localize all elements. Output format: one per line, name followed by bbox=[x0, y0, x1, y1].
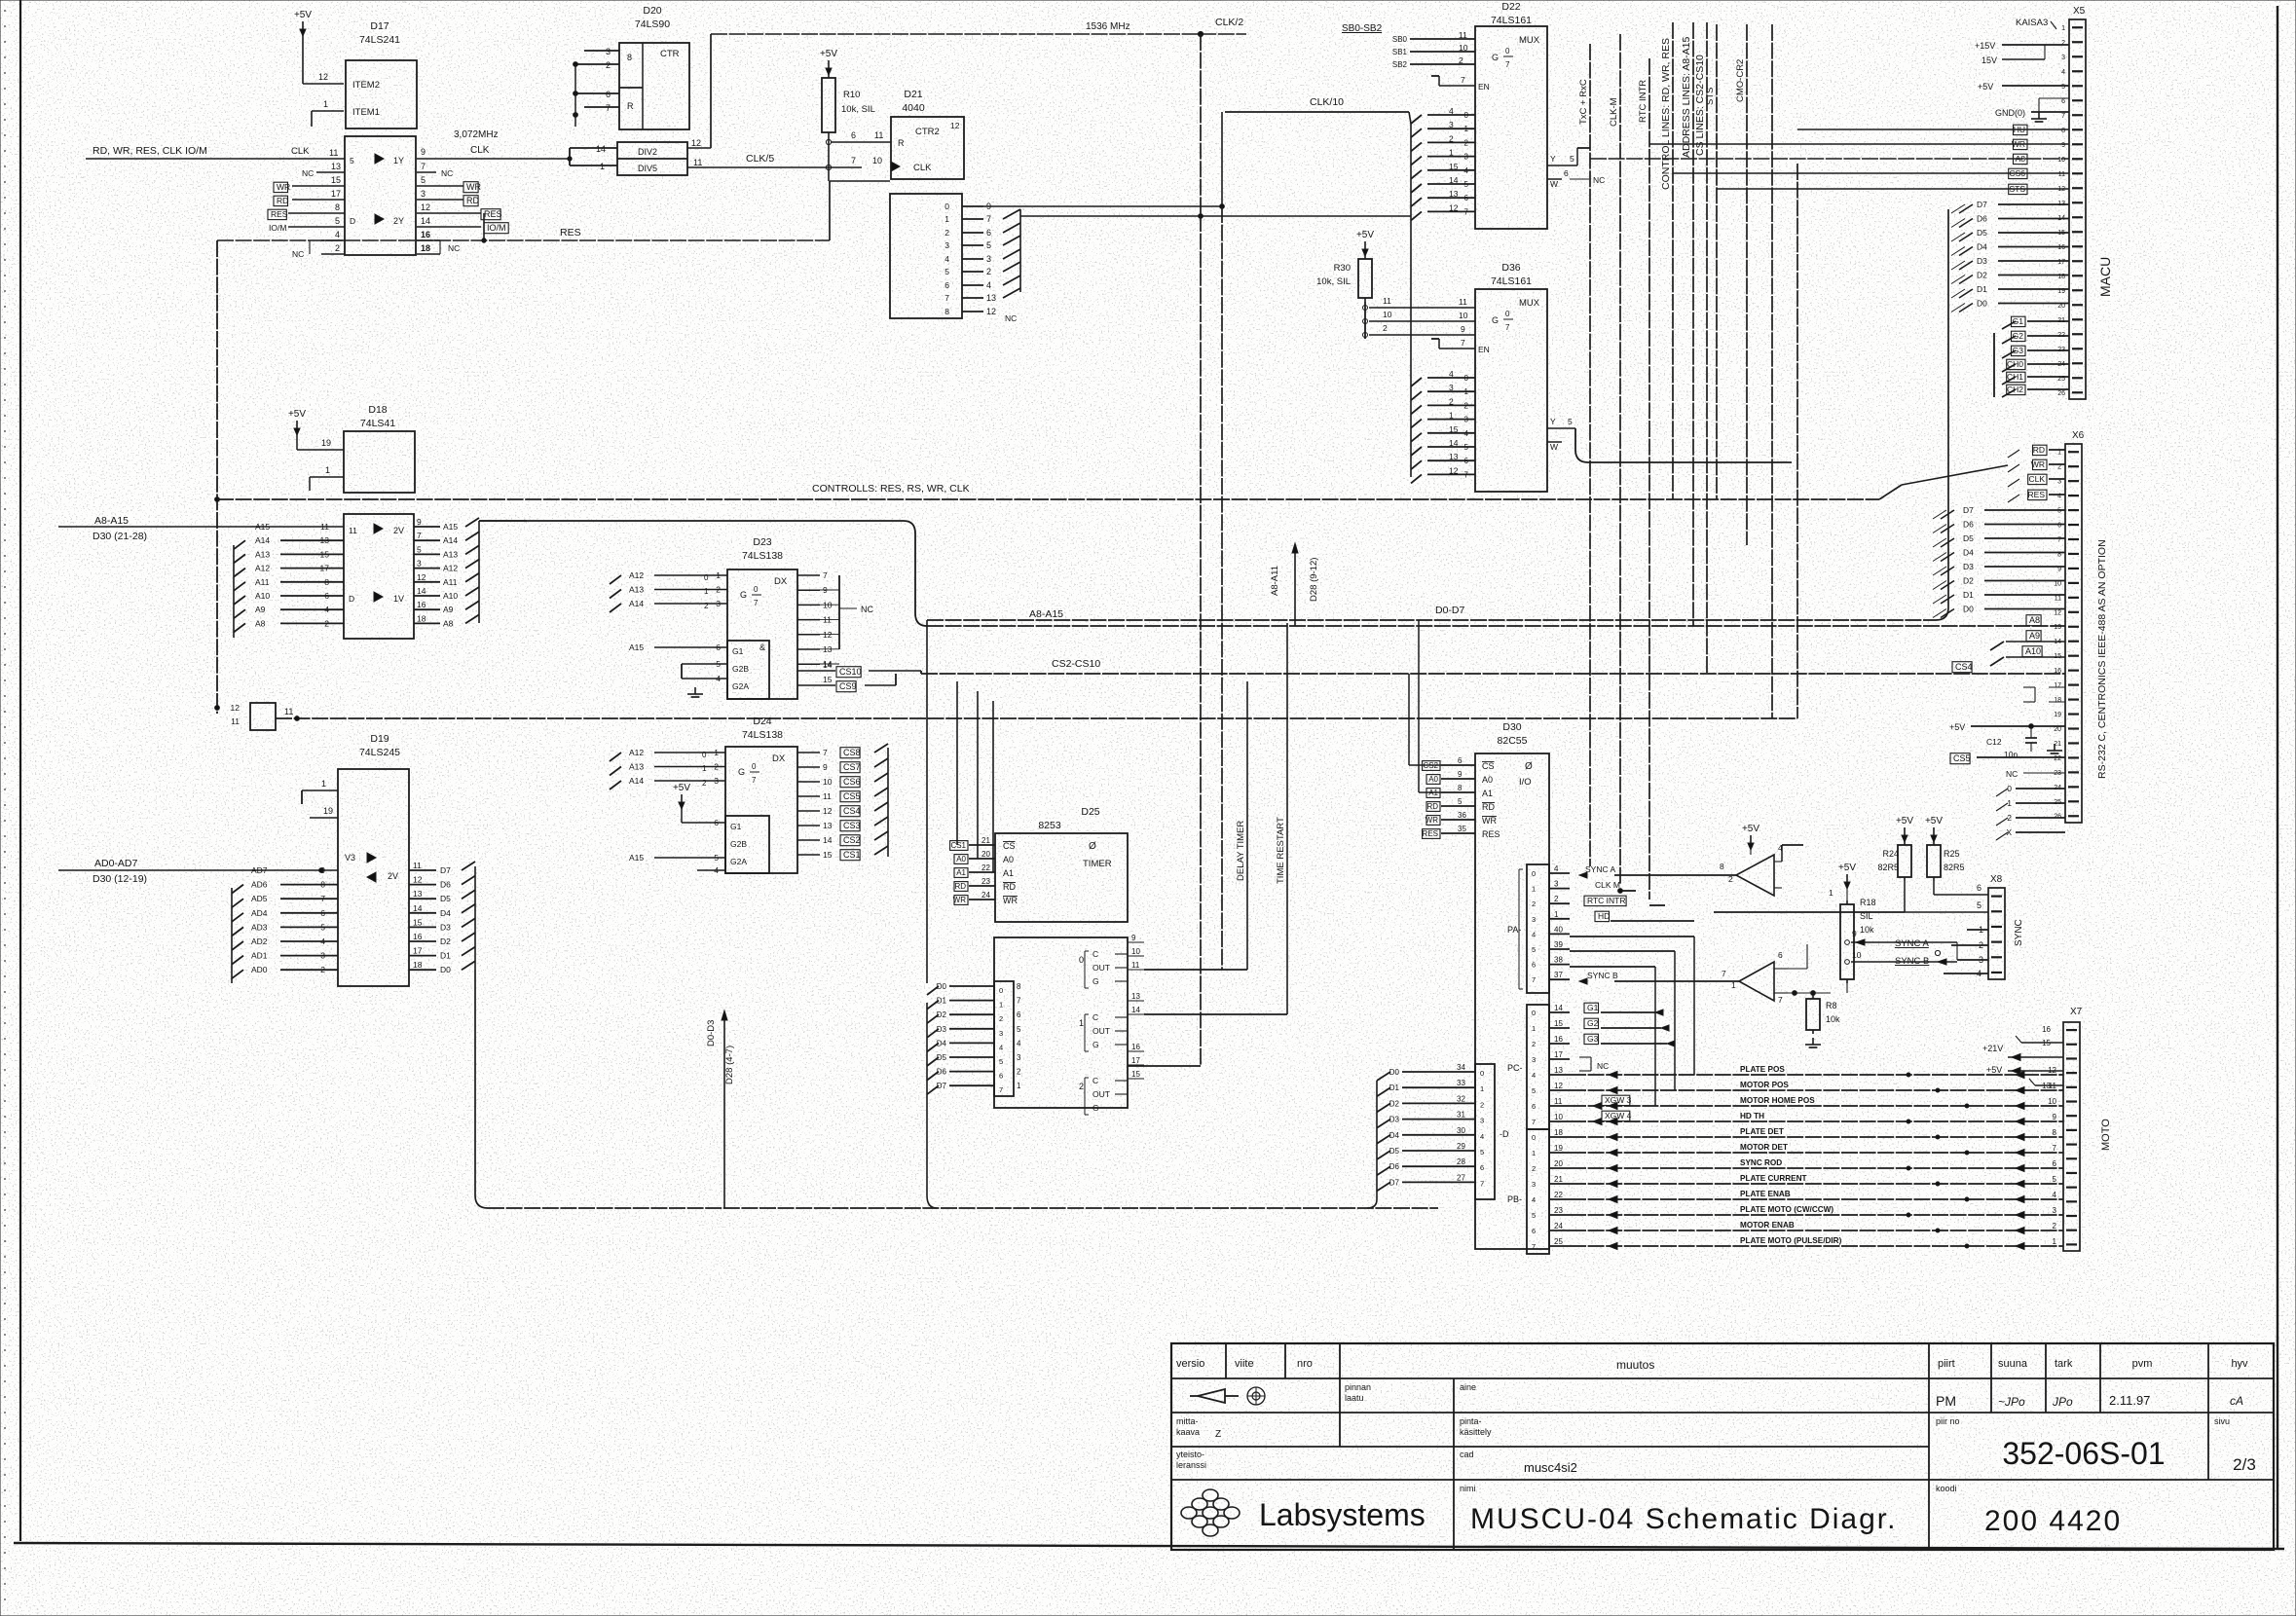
svg-text:14: 14 bbox=[1449, 175, 1459, 185]
svg-text:G: G bbox=[1092, 976, 1099, 986]
svg-text:NC: NC bbox=[292, 249, 304, 259]
svg-text:CLK: CLK bbox=[2028, 474, 2045, 484]
svg-text:7: 7 bbox=[417, 531, 422, 540]
svg-text:CS LINES: CS2-CS10: CS LINES: CS2-CS10 bbox=[1694, 55, 1706, 156]
svg-text:G2B: G2B bbox=[732, 664, 749, 674]
svg-text:19: 19 bbox=[321, 438, 331, 448]
svg-text:8: 8 bbox=[1017, 982, 1021, 991]
wire X6 NC bracket bbox=[2023, 686, 2035, 688]
net A8-A15 trunk right bbox=[479, 520, 527, 522]
net CS2-CS10 trunk bbox=[920, 671, 922, 674]
svg-text:D0: D0 bbox=[440, 965, 451, 974]
svg-text:AD3: AD3 bbox=[251, 922, 268, 932]
svg-text:8: 8 bbox=[2053, 1128, 2057, 1137]
svg-text:D6: D6 bbox=[1389, 1162, 1400, 1171]
svg-text:12: 12 bbox=[1449, 202, 1459, 212]
wire D23 outputs bbox=[797, 574, 820, 576]
svg-text:D1: D1 bbox=[1389, 1083, 1400, 1092]
svg-text:D2: D2 bbox=[440, 937, 451, 946]
net CONTROLLS RES RS WR CLK trunk bbox=[217, 498, 1879, 500]
svg-text:3: 3 bbox=[1464, 153, 1469, 162]
svg-text:20: 20 bbox=[981, 850, 990, 859]
svg-text:DX: DX bbox=[774, 576, 788, 587]
border frame right bbox=[2277, 6, 2278, 1549]
svg-text:CLK/10: CLK/10 bbox=[1310, 96, 1344, 108]
svg-text:TIMER: TIMER bbox=[1083, 859, 1112, 869]
net ADDRESS LINES label bbox=[1692, 22, 1694, 626]
svg-text:3: 3 bbox=[417, 559, 422, 569]
wire D23 CS10 CS9 outputs bbox=[797, 670, 835, 672]
svg-text:6: 6 bbox=[1464, 194, 1469, 202]
wire RES pin 8 bbox=[288, 212, 345, 214]
resistor R30 10k SIL bbox=[1364, 255, 1366, 259]
IC D24 enable sub-box bbox=[725, 816, 769, 873]
svg-text:3: 3 bbox=[999, 1029, 1003, 1038]
svg-text:0: 0 bbox=[752, 762, 757, 771]
svg-text:RD: RD bbox=[1426, 802, 1438, 811]
svg-text:12: 12 bbox=[421, 202, 430, 212]
svg-text:10k: 10k bbox=[1826, 1014, 1840, 1024]
svg-text:7: 7 bbox=[823, 570, 828, 580]
svg-text:2: 2 bbox=[1532, 1040, 1536, 1048]
svg-text:1: 1 bbox=[714, 748, 719, 757]
svg-text:17: 17 bbox=[2054, 682, 2061, 689]
svg-text:A8-A11: A8-A11 bbox=[1270, 566, 1280, 596]
svg-text:pinta-: pinta- bbox=[1460, 1416, 1482, 1426]
svg-text:+5V: +5V bbox=[294, 10, 312, 20]
svg-text:0: 0 bbox=[1480, 1069, 1484, 1078]
svg-text:SB0-SB2: SB0-SB2 bbox=[1342, 23, 1383, 34]
svg-text:KAISA3: KAISA3 bbox=[2016, 18, 2048, 28]
svg-text:R: R bbox=[627, 101, 634, 111]
wire D36 EN bbox=[1439, 348, 1475, 349]
svg-text:9: 9 bbox=[2053, 1113, 2057, 1121]
svg-text:5: 5 bbox=[2057, 508, 2061, 515]
svg-text:20: 20 bbox=[1554, 1159, 1563, 1168]
svg-text:A0: A0 bbox=[1428, 775, 1438, 784]
svg-text:OUT: OUT bbox=[1092, 1026, 1110, 1036]
svg-text:5: 5 bbox=[1977, 900, 1981, 910]
svg-text:A15: A15 bbox=[629, 853, 644, 863]
svg-text:D4: D4 bbox=[1977, 242, 1987, 252]
svg-text:CLK/5: CLK/5 bbox=[746, 153, 774, 165]
wire D30 CS2 riser bbox=[1408, 674, 1410, 765]
svg-text:yteisto-: yteisto- bbox=[1176, 1450, 1204, 1459]
wire RES routing down from D17 bbox=[483, 213, 485, 240]
svg-text:Y: Y bbox=[1550, 154, 1556, 164]
svg-text:23: 23 bbox=[1554, 1206, 1563, 1215]
svg-text:0: 0 bbox=[702, 751, 707, 759]
svg-text:9: 9 bbox=[417, 517, 422, 527]
svg-text:1: 1 bbox=[1731, 980, 1736, 990]
svg-text:A14: A14 bbox=[255, 535, 270, 545]
svg-text:CLK-M: CLK-M bbox=[1609, 97, 1619, 127]
svg-text:AD5: AD5 bbox=[251, 894, 268, 903]
svg-text:82C55: 82C55 bbox=[1498, 735, 1528, 747]
svg-text:36: 36 bbox=[1458, 811, 1466, 820]
op-amp U2 comparator B bbox=[1739, 962, 1774, 1001]
svg-text:+5V: +5V bbox=[1978, 82, 1993, 92]
svg-text:3,072MHz: 3,072MHz bbox=[454, 129, 499, 140]
IC D30 D box bbox=[1475, 1064, 1495, 1199]
svg-text:V3: V3 bbox=[345, 853, 355, 863]
resistor R24 82R5 bbox=[1904, 841, 1906, 845]
svg-text:A11: A11 bbox=[443, 577, 458, 587]
svg-text:A8: A8 bbox=[2016, 154, 2026, 164]
svg-text:0: 0 bbox=[2007, 784, 2012, 793]
wire D17 pins 16 18 NC bbox=[417, 239, 440, 241]
wire PC NC bracket bbox=[1579, 1056, 1591, 1058]
svg-text:8: 8 bbox=[2061, 128, 2065, 134]
svg-text:6: 6 bbox=[606, 90, 611, 99]
svg-text:AD7: AD7 bbox=[251, 865, 268, 875]
svg-text:IO/M: IO/M bbox=[487, 223, 506, 233]
svg-text:A14: A14 bbox=[629, 776, 644, 786]
svg-text:SYNC: SYNC bbox=[2014, 919, 2024, 946]
svg-text:14: 14 bbox=[823, 835, 833, 845]
svg-text:D6: D6 bbox=[1977, 214, 1987, 224]
svg-text:19: 19 bbox=[2054, 712, 2061, 718]
svg-text:11: 11 bbox=[874, 130, 883, 140]
wire D17 out pin 12->RES bbox=[417, 212, 481, 214]
svg-text:Ø: Ø bbox=[1525, 761, 1533, 772]
svg-text:28: 28 bbox=[1457, 1157, 1465, 1166]
svg-text:RD: RD bbox=[1003, 882, 1016, 892]
svg-text:1: 1 bbox=[2053, 1237, 2057, 1246]
svg-text:laatu: laatu bbox=[1345, 1393, 1364, 1403]
svg-text:2: 2 bbox=[1554, 895, 1559, 903]
wire D25 inputs bbox=[969, 844, 995, 846]
svg-text:2: 2 bbox=[1017, 1068, 1021, 1077]
svg-text:15: 15 bbox=[1131, 1070, 1140, 1079]
svg-text:11: 11 bbox=[823, 791, 832, 801]
wire Q0 to CLK/10 bbox=[983, 205, 1222, 207]
svg-text:A8-A15: A8-A15 bbox=[94, 515, 129, 527]
IC D25 D sub-box bbox=[994, 981, 1014, 1096]
svg-text:D4: D4 bbox=[1389, 1131, 1400, 1140]
svg-text:RD: RD bbox=[1482, 802, 1495, 812]
svg-text:14: 14 bbox=[417, 586, 426, 596]
wire motor signal lines bbox=[1570, 1074, 2063, 1076]
svg-text:17: 17 bbox=[1131, 1056, 1140, 1065]
svg-text:R30: R30 bbox=[1334, 263, 1351, 274]
svg-text:7: 7 bbox=[1505, 60, 1510, 69]
svg-text:A1: A1 bbox=[1482, 789, 1493, 798]
svg-text:4: 4 bbox=[1554, 864, 1559, 873]
wire D30 control inputs bbox=[1441, 764, 1475, 766]
svg-text:1: 1 bbox=[1464, 125, 1469, 133]
svg-text:ITEM2: ITEM2 bbox=[352, 80, 380, 91]
svg-text:6: 6 bbox=[1480, 1163, 1484, 1172]
svg-text:1: 1 bbox=[1480, 1084, 1484, 1093]
svg-text:R18: R18 bbox=[1860, 898, 1876, 907]
svg-text:A9: A9 bbox=[255, 605, 266, 614]
svg-text:TxC + RxC: TxC + RxC bbox=[1578, 79, 1589, 125]
wire D30 data D0-D7 bbox=[1402, 1071, 1475, 1073]
svg-text:4: 4 bbox=[1532, 930, 1536, 938]
svg-text:5: 5 bbox=[714, 853, 719, 863]
svg-text:8253: 8253 bbox=[1038, 820, 1061, 831]
svg-text:5: 5 bbox=[320, 922, 325, 932]
net D0-D3 D28 riser bbox=[723, 1012, 725, 1208]
svg-text:2: 2 bbox=[702, 779, 707, 788]
svg-text:5: 5 bbox=[1480, 1148, 1484, 1157]
svg-text:Ø: Ø bbox=[1089, 841, 1096, 852]
IC D18 enable box bbox=[344, 431, 415, 493]
svg-text:10: 10 bbox=[2057, 157, 2065, 164]
resistor R18 SIL 10k bbox=[1846, 900, 1848, 904]
wire D25 data inputs D0-D7 bbox=[949, 985, 994, 987]
svg-text:TIME RESTART: TIME RESTART bbox=[1276, 817, 1286, 884]
svg-text:AD1: AD1 bbox=[251, 951, 268, 961]
svg-text:pvm: pvm bbox=[2132, 1358, 2153, 1370]
svg-text:X6: X6 bbox=[2072, 430, 2085, 441]
svg-text:CS8: CS8 bbox=[843, 748, 861, 757]
svg-text:AD4: AD4 bbox=[251, 908, 268, 918]
wire R30 to D36 bbox=[1369, 307, 1475, 309]
svg-text:SB2: SB2 bbox=[1392, 60, 1408, 69]
svg-text:A13: A13 bbox=[629, 585, 644, 595]
svg-text:D6: D6 bbox=[1963, 520, 1974, 530]
net CLK-M vertical bbox=[1619, 34, 1621, 885]
svg-text:nro: nro bbox=[1297, 1358, 1313, 1370]
svg-text:kaava: kaava bbox=[1176, 1427, 1200, 1437]
svg-text:1: 1 bbox=[600, 162, 605, 171]
svg-text:CTR2: CTR2 bbox=[915, 127, 940, 137]
svg-text:A8-A15: A8-A15 bbox=[1029, 608, 1063, 620]
svg-text:9: 9 bbox=[1458, 770, 1463, 779]
svg-text:1: 1 bbox=[1829, 888, 1833, 898]
svg-text:NC: NC bbox=[441, 168, 453, 178]
wire D36 data inputs 0-7 bbox=[1427, 377, 1475, 379]
svg-text:0: 0 bbox=[1532, 869, 1536, 878]
svg-text:RES: RES bbox=[2028, 490, 2046, 499]
svg-text:1536 MHz: 1536 MHz bbox=[1086, 21, 1130, 32]
svg-text:3: 3 bbox=[1532, 915, 1536, 924]
svg-text:X8: X8 bbox=[1990, 874, 2003, 885]
wire RD pin 17 bbox=[292, 199, 345, 201]
svg-text:X7: X7 bbox=[2070, 1007, 2083, 1017]
svg-text:37: 37 bbox=[1554, 971, 1563, 979]
svg-text:2: 2 bbox=[606, 60, 611, 70]
svg-text:W: W bbox=[1550, 179, 1558, 189]
svg-text:D4: D4 bbox=[1963, 548, 1974, 558]
svg-text:6: 6 bbox=[1977, 883, 1981, 893]
svg-text:7: 7 bbox=[851, 156, 856, 165]
svg-text:10k, SIL: 10k, SIL bbox=[841, 104, 875, 115]
svg-text:18: 18 bbox=[413, 960, 423, 970]
net TxC RxC vertical bbox=[1589, 44, 1591, 866]
svg-text:6: 6 bbox=[320, 908, 325, 918]
svg-text:RES: RES bbox=[560, 227, 581, 239]
svg-text:4: 4 bbox=[999, 1043, 1003, 1051]
svg-text:NC: NC bbox=[1005, 313, 1017, 323]
wire NC pin 13 bbox=[316, 171, 345, 173]
svg-text:3: 3 bbox=[2053, 1206, 2057, 1215]
svg-text:10k, SIL: 10k, SIL bbox=[1316, 276, 1351, 287]
wire D22 Y W outputs bbox=[1547, 165, 1577, 166]
wire D17 out pin 7 NC bbox=[417, 171, 436, 173]
svg-text:13: 13 bbox=[413, 889, 423, 899]
svg-text:D0: D0 bbox=[1389, 1068, 1400, 1077]
wire PA6 to MOTOR HOME POS bbox=[1654, 967, 1656, 1106]
svg-text:9: 9 bbox=[1852, 929, 1857, 938]
svg-text:11: 11 bbox=[284, 707, 293, 716]
svg-text:6: 6 bbox=[1017, 1010, 1021, 1019]
svg-text:CS7: CS7 bbox=[843, 762, 861, 772]
svg-text:musc4si2: musc4si2 bbox=[1524, 1460, 1577, 1475]
svg-text:G: G bbox=[1492, 315, 1499, 325]
svg-text:SYNC A: SYNC A bbox=[1895, 938, 1930, 949]
svg-text:A10: A10 bbox=[2025, 646, 2041, 656]
bus vertical STS bbox=[1716, 24, 1718, 499]
IC D22 box bbox=[1475, 26, 1547, 229]
net trunk from J1 bbox=[276, 717, 1797, 719]
svg-text:0: 0 bbox=[704, 573, 709, 582]
svg-text:CS: CS bbox=[1482, 761, 1495, 771]
svg-text:EN: EN bbox=[1478, 345, 1490, 354]
svg-text:DX: DX bbox=[772, 753, 786, 764]
svg-text:3: 3 bbox=[1449, 383, 1454, 392]
bus vertical 4 bbox=[1796, 164, 1798, 718]
wire PC XGW bbox=[1602, 1095, 1630, 1105]
svg-text:9: 9 bbox=[823, 762, 828, 772]
svg-text:+5V: +5V bbox=[820, 49, 837, 59]
svg-text:20: 20 bbox=[2054, 726, 2061, 733]
svg-text:sivu: sivu bbox=[2214, 1416, 2230, 1426]
svg-text:8: 8 bbox=[320, 880, 325, 890]
title block outline bbox=[1171, 1343, 2274, 1550]
svg-text:1: 1 bbox=[2061, 25, 2065, 32]
svg-text:D30: D30 bbox=[1502, 721, 1521, 733]
svg-text:D7: D7 bbox=[1977, 200, 1987, 209]
svg-text:A8: A8 bbox=[2029, 615, 2040, 625]
svg-text:A13: A13 bbox=[255, 549, 270, 559]
svg-text:C: C bbox=[1092, 1012, 1098, 1022]
svg-text:CS: CS bbox=[1003, 841, 1016, 851]
wire WR pin 15 bbox=[292, 185, 345, 187]
svg-text:11: 11 bbox=[2058, 171, 2065, 178]
svg-text:1: 1 bbox=[1079, 1018, 1084, 1028]
svg-text:PM: PM bbox=[1936, 1393, 1956, 1409]
svg-text:DELAY TIMER: DELAY TIMER bbox=[1236, 821, 1246, 881]
svg-text:WR: WR bbox=[277, 182, 290, 192]
svg-text:D5: D5 bbox=[440, 894, 451, 903]
svg-text:G1: G1 bbox=[1587, 1003, 1599, 1012]
svg-text:2Y: 2Y bbox=[393, 216, 404, 226]
svg-text:D7: D7 bbox=[1963, 505, 1974, 515]
resistor R25 82R5 bbox=[1933, 841, 1935, 845]
svg-text:39: 39 bbox=[1554, 940, 1563, 949]
logo Labsystems bbox=[1203, 1489, 1218, 1501]
svg-text:D28 (4-7): D28 (4-7) bbox=[724, 1046, 735, 1084]
svg-text:10k: 10k bbox=[1860, 925, 1874, 935]
svg-text:4: 4 bbox=[714, 865, 719, 875]
svg-text:R: R bbox=[898, 138, 905, 148]
svg-text:tark: tark bbox=[2055, 1358, 2073, 1370]
svg-text:2: 2 bbox=[1383, 323, 1388, 333]
svg-text:+5V: +5V bbox=[1986, 1065, 2002, 1075]
svg-text:RS-232 C, CENTRONICS IEEE-488: RS-232 C, CENTRONICS IEEE-488 AS AN OPTI… bbox=[2096, 539, 2108, 779]
svg-text:viite: viite bbox=[1235, 1358, 1254, 1370]
svg-text:0: 0 bbox=[754, 585, 759, 594]
svg-text:5: 5 bbox=[1464, 180, 1469, 189]
svg-text:D18: D18 bbox=[368, 404, 387, 416]
svg-text:3: 3 bbox=[1464, 416, 1469, 424]
svg-text:4: 4 bbox=[324, 605, 329, 614]
svg-text:2: 2 bbox=[704, 602, 709, 610]
svg-text:STS: STS bbox=[2009, 184, 2025, 194]
svg-text:4: 4 bbox=[320, 937, 325, 946]
svg-text:74LS138: 74LS138 bbox=[742, 729, 783, 741]
svg-text:7: 7 bbox=[944, 293, 949, 303]
svg-text:D4: D4 bbox=[440, 908, 451, 918]
svg-text:MOTOR HOME POS: MOTOR HOME POS bbox=[1740, 1096, 1815, 1105]
svg-text:4: 4 bbox=[1017, 1039, 1021, 1047]
wire D17 out pin 14 IO/M bbox=[417, 226, 481, 228]
svg-text:12: 12 bbox=[1449, 465, 1459, 475]
wire X5 signals bbox=[2014, 125, 2028, 134]
IC D36 box bbox=[1475, 289, 1547, 492]
svg-text:2V: 2V bbox=[388, 871, 398, 881]
wire D18 pin 1 bbox=[310, 476, 344, 478]
svg-text:3: 3 bbox=[1017, 1053, 1021, 1062]
svg-text:1: 1 bbox=[1017, 1082, 1021, 1090]
svg-text:A14: A14 bbox=[443, 535, 458, 545]
svg-text:5: 5 bbox=[2053, 1175, 2057, 1184]
svg-text:6: 6 bbox=[1532, 1227, 1536, 1235]
svg-text:cA: cA bbox=[2230, 1394, 2243, 1408]
svg-text:3: 3 bbox=[716, 599, 721, 608]
svg-text:2: 2 bbox=[2053, 1222, 2057, 1230]
svg-text:0: 0 bbox=[1079, 955, 1084, 965]
svg-text:11: 11 bbox=[413, 861, 422, 870]
svg-text:6: 6 bbox=[2053, 1159, 2057, 1168]
svg-text:40: 40 bbox=[1554, 925, 1563, 934]
svg-text:PLATE ENAB: PLATE ENAB bbox=[1740, 1190, 1791, 1198]
svg-text:1: 1 bbox=[1532, 1149, 1536, 1157]
svg-text:10: 10 bbox=[1459, 43, 1468, 53]
svg-text:2: 2 bbox=[986, 267, 991, 276]
svg-text:D1: D1 bbox=[440, 951, 451, 961]
wire D bus down to trunk bbox=[474, 970, 476, 1195]
svg-text:nimi: nimi bbox=[1460, 1484, 1476, 1493]
svg-text:6: 6 bbox=[1778, 950, 1783, 960]
svg-text:1: 1 bbox=[1554, 910, 1559, 919]
IC D25 control box bbox=[995, 833, 1128, 922]
svg-text:1: 1 bbox=[999, 1001, 1003, 1010]
svg-text:5: 5 bbox=[999, 1057, 1003, 1066]
svg-text:14: 14 bbox=[1554, 1004, 1563, 1012]
bus vertical 3 bbox=[1771, 24, 1773, 718]
svg-text:Y: Y bbox=[1550, 417, 1556, 426]
svg-text:1Y: 1Y bbox=[393, 156, 404, 165]
svg-text:D2: D2 bbox=[1977, 271, 1987, 280]
svg-text:10: 10 bbox=[1131, 947, 1140, 956]
svg-text:D7: D7 bbox=[440, 865, 451, 875]
svg-text:2: 2 bbox=[1480, 1100, 1484, 1109]
svg-text:MUX: MUX bbox=[1519, 35, 1540, 46]
bus vertical D data right bbox=[1947, 209, 1949, 607]
wire PA4 to PLATE POS bbox=[1693, 937, 1695, 1075]
svg-text:CS3: CS3 bbox=[843, 821, 861, 830]
bus vertical from CLK/2 junction bbox=[1200, 34, 1202, 1066]
svg-text:9: 9 bbox=[421, 147, 426, 157]
svg-text:0: 0 bbox=[1505, 310, 1510, 318]
svg-text:7: 7 bbox=[999, 1085, 1003, 1094]
svg-text:6: 6 bbox=[1464, 457, 1469, 465]
wire R24 to X8 pin 5 bbox=[1904, 881, 1906, 912]
